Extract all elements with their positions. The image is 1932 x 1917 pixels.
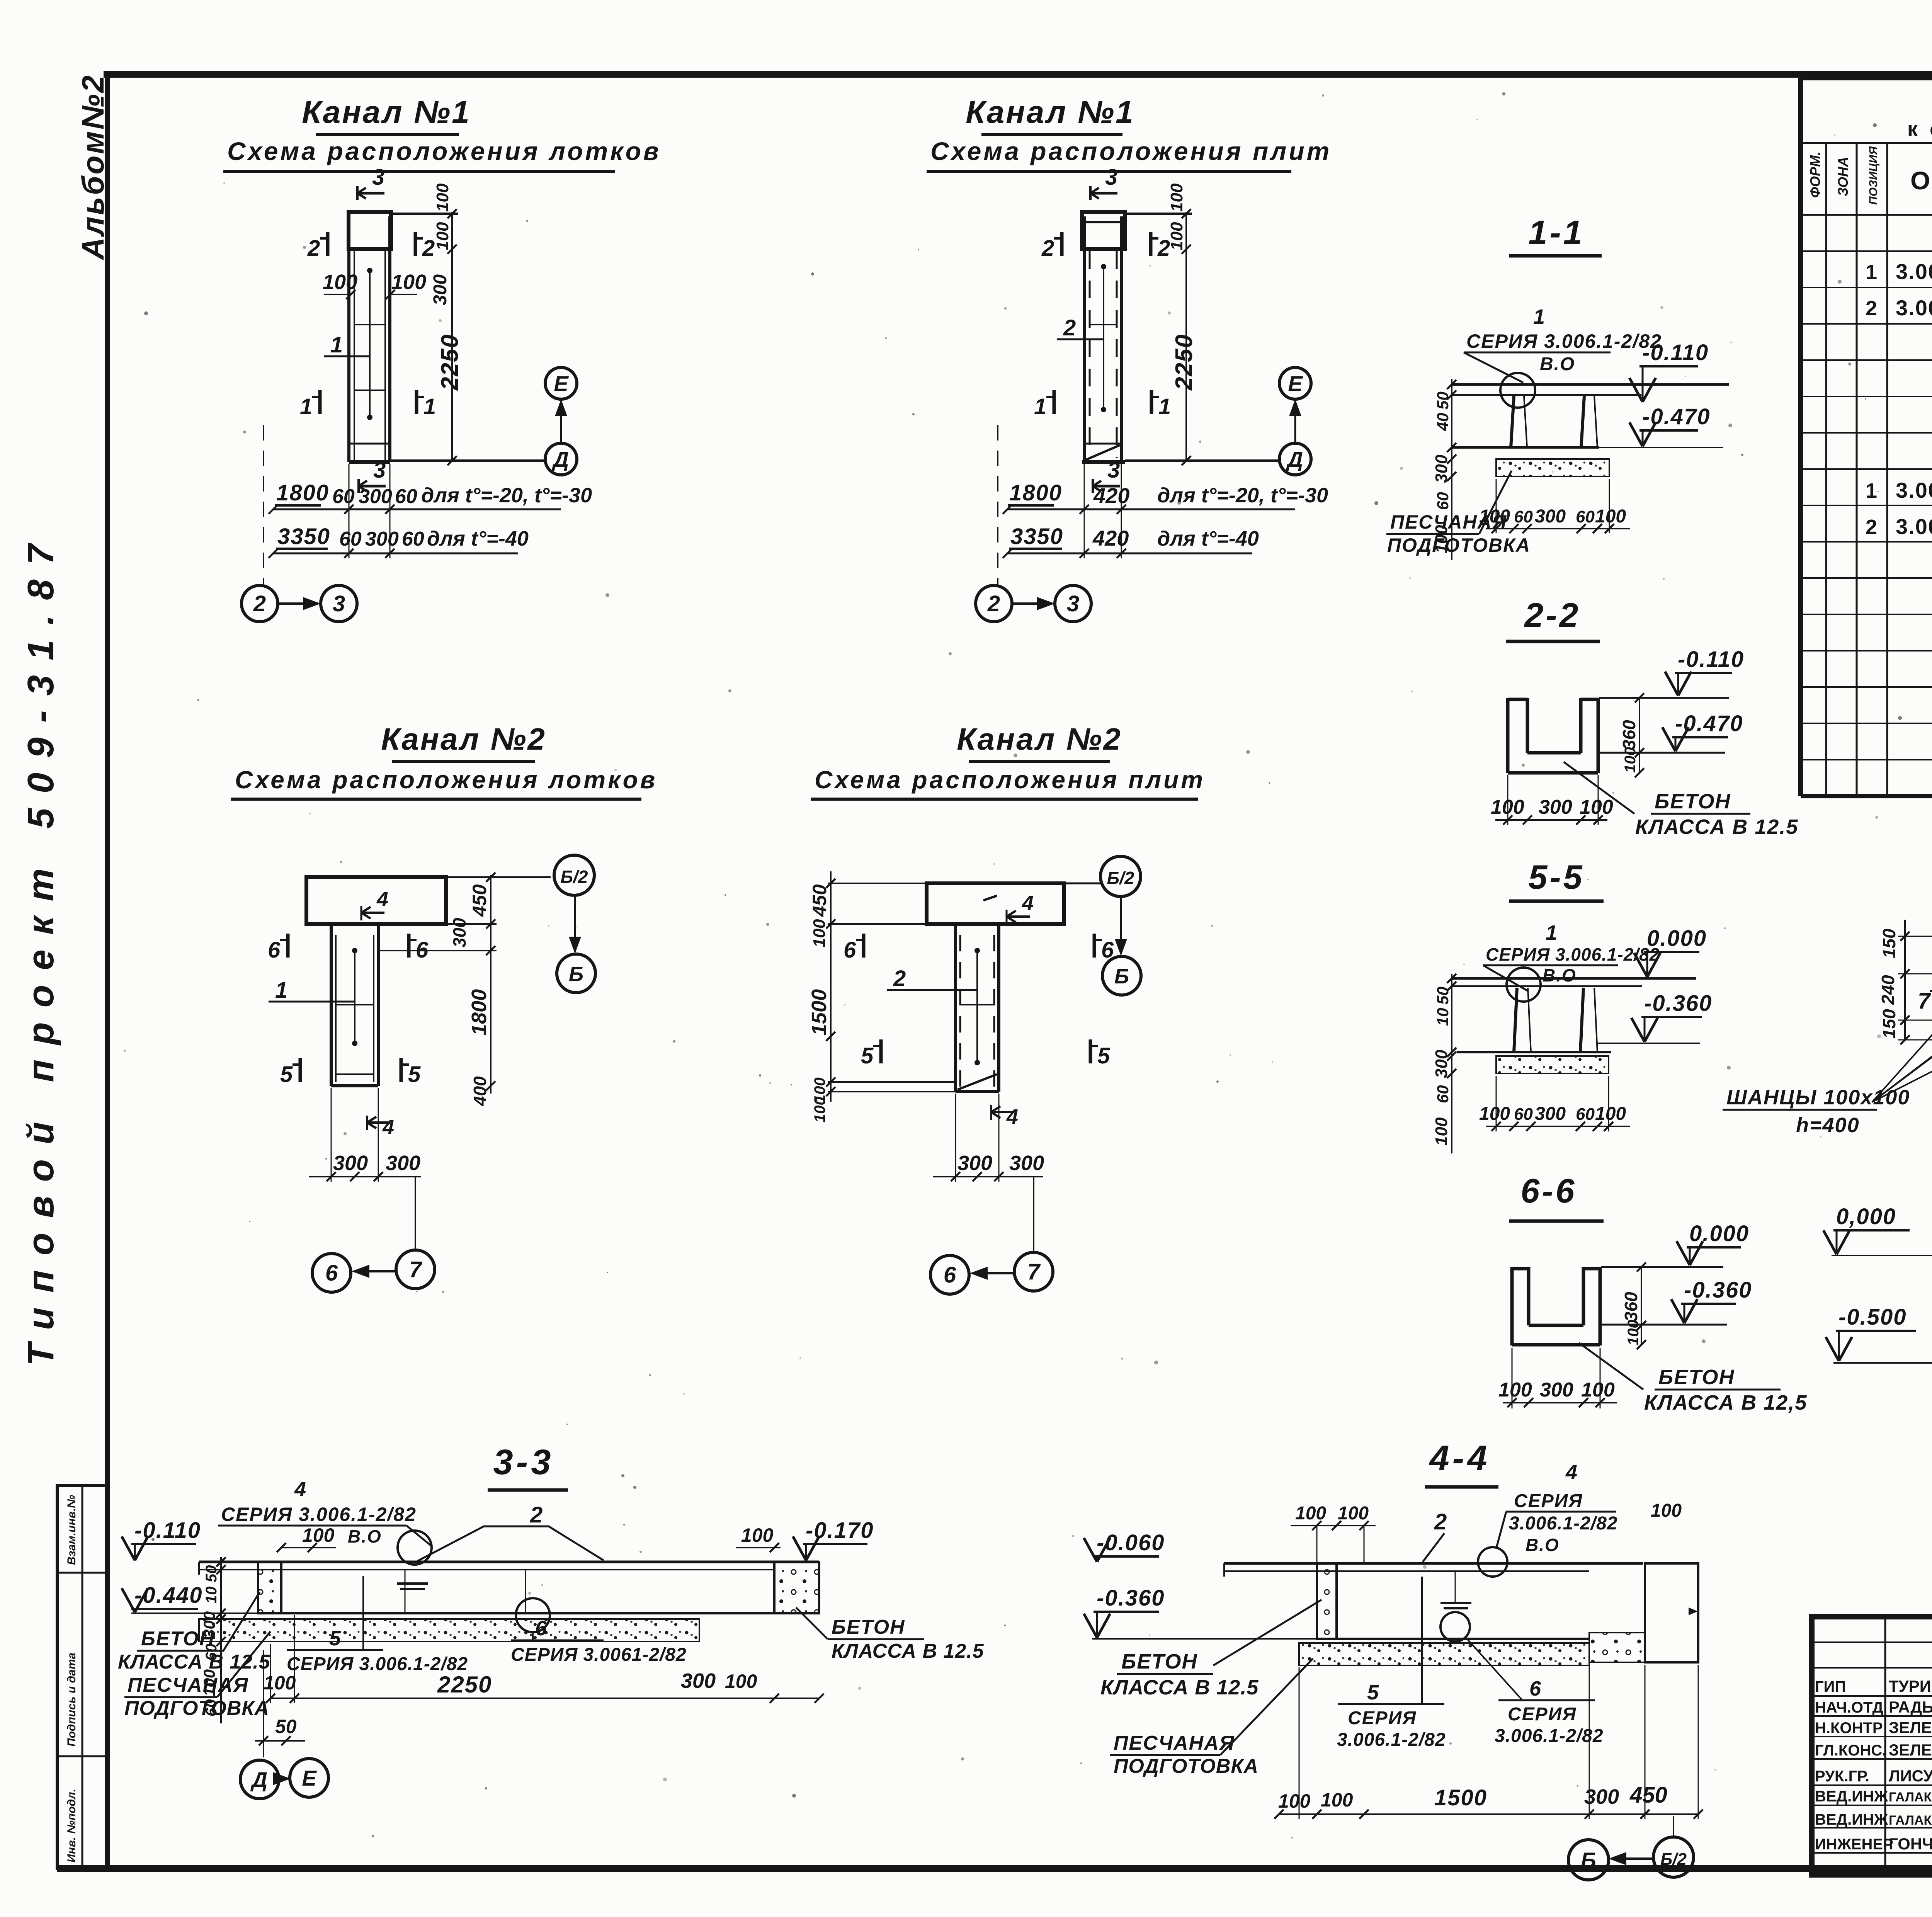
svg-text:100: 100 (200, 1669, 218, 1696)
svg-text:4: 4 (1565, 1461, 1577, 1484)
svg-text:100: 100 (1167, 183, 1186, 212)
svg-text:1-1: 1-1 (1528, 213, 1584, 252)
1-1 slab (1452, 383, 1729, 386)
svg-text:1: 1 (1866, 260, 1877, 284)
svg-text:1: 1 (1034, 394, 1046, 419)
svg-text:100: 100 (1432, 1117, 1451, 1146)
3-3 right wall hatched (774, 1562, 819, 1613)
svg-text:1: 1 (1546, 921, 1557, 944)
svg-text:6: 6 (325, 1260, 338, 1286)
svg-text:3.006.1-2/82 вып 1-2: 3.006.1-2/82 вып 1-2 (1896, 514, 1932, 539)
FO-8 leaders to anchors (1872, 968, 1932, 1102)
svg-text:300: 300 (1535, 506, 1566, 527)
svg-text:КЛАССА В 12.5: КЛАССА В 12.5 (1635, 815, 1798, 839)
svg-text:1: 1 (423, 394, 436, 419)
svg-text:6: 6 (535, 1617, 547, 1640)
svg-text:Типовой проект 509-31.87: Типовой проект 509-31.87 (20, 529, 61, 1366)
svg-text:СЕРИЯ: СЕРИЯ (1508, 1704, 1577, 1725)
svg-text:100: 100 (811, 1097, 828, 1123)
svg-text:50: 50 (275, 1716, 297, 1737)
svg-text:ГЛ.КОНС.: ГЛ.КОНС. (1815, 1742, 1886, 1759)
svg-text:КЛАССА В 12,5: КЛАССА В 12,5 (1644, 1391, 1807, 1414)
svg-text:1800: 1800 (276, 480, 329, 505)
svg-text:60: 60 (395, 485, 417, 508)
svg-text:ЗЕЛЕНСКИЙ: ЗЕЛЕНСКИЙ (1889, 1740, 1932, 1759)
svg-text:60: 60 (332, 485, 355, 508)
svg-text:5: 5 (1097, 1043, 1110, 1068)
svg-text:3: 3 (333, 591, 345, 616)
svg-text:100: 100 (433, 183, 452, 212)
svg-text:2: 2 (1041, 236, 1054, 261)
svg-text:1500: 1500 (1434, 1785, 1487, 1810)
svg-text:300: 300 (386, 1152, 420, 1175)
svg-text:-0.360: -0.360 (1684, 1277, 1752, 1303)
4-4 left wall hatched (1317, 1563, 1337, 1639)
svg-text:ПОДГОТОВКА: ПОДГОТОВКА (1387, 534, 1531, 556)
svg-text:ГАЛАКТИОНОВА: ГАЛАКТИОНОВА (1889, 1790, 1932, 1805)
svg-text:3.006.1-2/82: 3.006.1-2/82 (1337, 1730, 1446, 1750)
svg-text:1500: 1500 (808, 989, 831, 1036)
svg-text:1: 1 (1158, 394, 1171, 419)
svg-text:7: 7 (1027, 1259, 1041, 1284)
svg-text:300: 300 (359, 485, 392, 508)
4-4 bottom line (1317, 1638, 1589, 1640)
svg-text:450: 450 (1629, 1783, 1667, 1808)
svg-text:Обозначение: Обозначение (1910, 166, 1932, 195)
svg-text:РАДЬКО: РАДЬКО (1889, 1698, 1932, 1716)
svg-text:2: 2 (1063, 315, 1076, 340)
5-5 walls (1514, 988, 1517, 1052)
svg-text:2: 2 (253, 591, 266, 616)
svg-text:100: 100 (1651, 1500, 1682, 1521)
svg-text:100: 100 (1167, 222, 1186, 250)
svg-text:для t°=-20, t°=-30: для t°=-20, t°=-30 (1157, 484, 1328, 507)
5-5 sand (1496, 1056, 1609, 1073)
svg-text:100: 100 (1338, 1503, 1369, 1524)
svg-text:2: 2 (893, 966, 906, 991)
grid circle Б (lotki) (557, 954, 595, 993)
svg-text:Б: Б (1581, 1848, 1596, 1872)
axis circle 7 (lotki) (396, 1250, 435, 1289)
svg-text:ИНЖЕНЕР: ИНЖЕНЕР (1815, 1836, 1893, 1853)
svg-text:В.О: В.О (1540, 354, 1575, 374)
3-3 sand layer (199, 1619, 699, 1641)
svg-text:ПЕСЧАНАЯ: ПЕСЧАНАЯ (128, 1674, 249, 1696)
svg-text:ЗЕЛЕНСКИЙ: ЗЕЛЕНСКИЙ (1889, 1718, 1932, 1737)
svg-text:Канал №1: Канал №1 (302, 95, 471, 130)
svg-text:420: 420 (1093, 483, 1129, 508)
svg-text:100: 100 (810, 919, 829, 947)
svg-text:5: 5 (1367, 1681, 1379, 1704)
svg-text:1800: 1800 (1009, 480, 1062, 505)
axis dashed line (263, 425, 264, 584)
svg-text:ВЕД.ИНЖ: ВЕД.ИНЖ (1815, 1788, 1888, 1805)
1-1 sand layer (1496, 459, 1609, 476)
svg-text:Д: Д (552, 447, 569, 471)
svg-text:1: 1 (1866, 479, 1877, 502)
svg-text:100: 100 (1321, 1789, 1353, 1811)
6-6 channel (1510, 1267, 1514, 1345)
svg-text:Схема расположения лотков: Схема расположения лотков (235, 766, 657, 794)
axis circle 3 plity (1055, 585, 1091, 622)
svg-text:3: 3 (372, 165, 384, 190)
svg-text:300: 300 (1540, 1379, 1573, 1401)
svg-text:БЕТОН: БЕТОН (832, 1616, 905, 1638)
svg-text:3: 3 (1067, 591, 1079, 616)
svg-text:Схема расположения плит: Схема расположения плит (815, 766, 1205, 794)
svg-text:300: 300 (333, 1152, 368, 1175)
svg-text:100: 100 (433, 222, 452, 250)
svg-text:Схема расположения лотков: Схема расположения лотков (227, 137, 661, 165)
svg-text:300: 300 (1432, 1050, 1451, 1078)
svg-text:для t°=-20, t°=-30: для t°=-20, t°=-30 (421, 484, 592, 507)
svg-text:Б: Б (1114, 965, 1129, 988)
svg-text:100: 100 (1498, 1379, 1532, 1401)
kanal1 plity ext + dims (1125, 213, 1192, 215)
svg-text:-0.360: -0.360 (1644, 991, 1712, 1016)
axis circle 2 (241, 585, 278, 622)
svg-text:6: 6 (1529, 1677, 1541, 1700)
svg-text:-0.470: -0.470 (1642, 404, 1710, 429)
svg-text:400: 400 (470, 1076, 490, 1106)
svg-text:1: 1 (330, 332, 343, 357)
frame top border (104, 71, 1932, 78)
svg-text:ПЕСЧАНАЯ: ПЕСЧАНАЯ (1114, 1732, 1235, 1754)
kanal2 lotki marks 6 (286, 934, 290, 958)
2-2 vertical dim (1639, 698, 1640, 774)
title block left grid (1884, 1617, 1886, 1875)
svg-text:3.006.1-2/82 вып 1-1: 3.006.1-2/82 вып 1-1 (1896, 478, 1932, 502)
svg-text:360: 360 (1619, 720, 1639, 750)
grid circle Б/2 (plity) (1100, 856, 1141, 896)
kanal2 lotki axis line (415, 1177, 416, 1249)
grid circle Б (plity) (1102, 956, 1141, 995)
kanal2 lotki marks 5 (299, 1058, 302, 1082)
svg-text:2: 2 (1157, 236, 1170, 261)
4-4 right concrete (1589, 1633, 1645, 1662)
axis circle Д (240, 1760, 279, 1799)
3-3 inner joints (405, 1570, 406, 1613)
svg-text:0.000: 0.000 (1647, 926, 1707, 951)
svg-text:2: 2 (1866, 297, 1877, 320)
svg-text:для t°=-40: для t°=-40 (427, 527, 529, 550)
svg-text:Б/2: Б/2 (1660, 1850, 1687, 1869)
svg-text:5-5: 5-5 (1528, 858, 1584, 896)
1-1 callout circle (1500, 373, 1535, 408)
spec table grid (1801, 76, 1932, 80)
svg-text:ПОЗИЦИЯ: ПОЗИЦИЯ (1867, 146, 1880, 205)
axis circle 2 plity (976, 585, 1012, 622)
kanal2 plity top slab (927, 883, 1064, 924)
svg-text:60: 60 (402, 528, 424, 550)
svg-text:Е: Е (302, 1766, 317, 1790)
6-6 vertical dim (1641, 1267, 1642, 1345)
svg-text:360: 360 (1621, 1292, 1641, 1322)
svg-text:100: 100 (1479, 1104, 1510, 1124)
kanal2 plity axis line (1033, 1177, 1034, 1251)
svg-text:В.О: В.О (348, 1526, 382, 1546)
kanal1 plity plan column (1082, 212, 1125, 249)
section marks 2 plity (1060, 232, 1064, 256)
kanal2 lotki right dims (490, 875, 492, 1094)
grid circle Е (545, 367, 577, 399)
grid circle Д (545, 443, 577, 475)
svg-text:2250: 2250 (437, 1672, 492, 1698)
kanal2 plity left dims (830, 871, 832, 1102)
5-5 slab (1452, 977, 1696, 980)
svg-text:5: 5 (861, 1043, 874, 1068)
kanal2 lotki column (330, 924, 333, 1086)
svg-text:ГОНЧАРУК: ГОНЧАРУК (1889, 1835, 1932, 1853)
4-4 foundation block (1645, 1563, 1698, 1662)
axis circle Б/2 (1653, 1837, 1694, 1877)
section marks 2 (326, 232, 330, 256)
svg-text:450: 450 (469, 884, 490, 917)
svg-text:ФОРМ.: ФОРМ. (1807, 151, 1823, 198)
svg-text:60: 60 (339, 528, 362, 550)
svg-text:-0.500: -0.500 (1838, 1305, 1906, 1330)
svg-text:4: 4 (1006, 1105, 1018, 1128)
svg-text:4: 4 (294, 1478, 306, 1501)
grid circle Е plity (1279, 367, 1311, 399)
section marks 1 (318, 390, 322, 414)
axis dashed line plity (997, 425, 998, 584)
svg-text:4: 4 (382, 1116, 394, 1139)
4-4 slab (1224, 1562, 1643, 1565)
svg-text:4: 4 (1022, 891, 1034, 915)
svg-text:1: 1 (275, 978, 287, 1003)
svg-text:40: 40 (1434, 413, 1452, 431)
axis circle 3 (321, 585, 357, 622)
svg-text:3: 3 (1105, 165, 1117, 190)
grid circle Д plity (1279, 443, 1311, 475)
svg-text:3-3: 3-3 (493, 1442, 554, 1482)
svg-text:7: 7 (409, 1257, 423, 1282)
svg-text:100: 100 (1595, 506, 1626, 527)
svg-text:-0.110: -0.110 (1642, 340, 1709, 365)
4-4 sand layer (1299, 1643, 1589, 1665)
svg-text:5: 5 (280, 1062, 293, 1087)
svg-text:ГАЛАКТИОНОВА: ГАЛАКТИОНОВА (1889, 1813, 1932, 1828)
svg-text:100: 100 (1295, 1503, 1326, 1524)
svg-text:В.О: В.О (1543, 965, 1577, 985)
svg-text:100: 100 (1595, 1104, 1626, 1124)
2-2 channel (1506, 698, 1510, 773)
svg-text:60: 60 (1576, 1105, 1595, 1124)
svg-text:6-6: 6-6 (1520, 1172, 1577, 1210)
svg-text:СЕРИЯ 3.006.1-2/82: СЕРИЯ 3.006.1-2/82 (1466, 330, 1662, 352)
svg-text:2250: 2250 (437, 334, 463, 391)
grid circle Б/2 (lotki) (554, 855, 594, 895)
svg-text:3350: 3350 (1010, 524, 1063, 549)
kanal2 plity marks 6 (862, 934, 866, 958)
axis arrow 2-3 (278, 602, 310, 605)
kanal2 plity column (954, 924, 957, 1092)
svg-text:100: 100 (741, 1524, 774, 1546)
svg-text:Канал №2: Канал №2 (381, 722, 546, 756)
svg-text:100: 100 (1479, 506, 1510, 527)
svg-text:Е: Е (1288, 371, 1303, 396)
svg-text:150: 150 (1879, 1009, 1899, 1039)
svg-text:6: 6 (268, 937, 281, 963)
svg-text:300: 300 (1009, 1152, 1044, 1175)
svg-text:Канал №1: Канал №1 (966, 95, 1135, 130)
kanal2 lotki top slab (306, 877, 446, 924)
svg-text:100: 100 (1622, 747, 1639, 773)
svg-text:60: 60 (1434, 1085, 1452, 1103)
svg-text:2250: 2250 (1171, 334, 1197, 391)
kanal2 plity marks 5 (879, 1039, 883, 1063)
1-1 bottom (1452, 446, 1599, 449)
svg-text:ЗОНА: ЗОНА (1835, 157, 1851, 196)
axis circle 6 (lotki) (312, 1254, 351, 1292)
svg-text:3: 3 (1107, 458, 1120, 483)
svg-text:ЛИСУНОВ: ЛИСУНОВ (1889, 1767, 1932, 1785)
axis circle Е (290, 1759, 328, 1797)
svg-text:3.006.1-2/82: 3.006.1-2/82 (1495, 1726, 1604, 1746)
svg-text:2: 2 (307, 236, 320, 261)
svg-text:СЕРИЯ 3.0061-2/82: СЕРИЯ 3.0061-2/82 (511, 1645, 687, 1665)
svg-text:4-4: 4-4 (1429, 1439, 1490, 1478)
svg-text:3.006.1-2/82 вып 1-2: 3.006.1-2/82 вып 1-2 (1896, 296, 1932, 320)
svg-text:60: 60 (203, 1699, 220, 1717)
svg-text:300: 300 (200, 1611, 218, 1638)
5-5 bottom (1457, 1051, 1611, 1053)
svg-text:ШАНЦЫ 100х100: ШАНЦЫ 100х100 (1726, 1086, 1910, 1109)
svg-text:60: 60 (1514, 1105, 1533, 1124)
svg-text:100: 100 (1278, 1790, 1311, 1812)
4-4 callout circle 1 (1478, 1547, 1507, 1577)
frame left border (105, 74, 110, 1869)
1-1 walls (1511, 396, 1514, 447)
svg-text:ПОДГОТОВКА: ПОДГОТОВКА (124, 1697, 269, 1720)
svg-text:НАЧ.ОТД: НАЧ.ОТД (1815, 1699, 1883, 1716)
3-3 slab (199, 1561, 819, 1563)
left form strip (57, 1486, 108, 1869)
svg-text:ГИП: ГИП (1815, 1678, 1846, 1695)
svg-text:Б/2: Б/2 (561, 867, 588, 887)
svg-text:300: 300 (365, 528, 399, 550)
svg-text:5: 5 (408, 1062, 421, 1087)
svg-text:100: 100 (725, 1670, 757, 1692)
svg-text:300: 300 (449, 918, 469, 947)
svg-text:60: 60 (1576, 507, 1595, 526)
svg-text:300: 300 (1539, 796, 1572, 818)
3-3 callout circle 2 (516, 1598, 550, 1632)
svg-text:100: 100 (1432, 525, 1451, 553)
svg-text:БЕТОН: БЕТОН (1655, 790, 1731, 813)
svg-text:6: 6 (944, 1262, 956, 1288)
4-4 joint symbol (1440, 1603, 1471, 1608)
svg-text:Е: Е (554, 371, 569, 396)
svg-text:100: 100 (323, 270, 357, 294)
svg-text:РУК.ГР.: РУК.ГР. (1815, 1768, 1869, 1785)
svg-text:Н.КОНТР: Н.КОНТР (1815, 1720, 1883, 1737)
svg-text:300: 300 (957, 1152, 992, 1175)
svg-text:420: 420 (1092, 526, 1129, 550)
svg-text:1: 1 (300, 394, 312, 419)
svg-text:для t°=-40: для t°=-40 (1157, 527, 1259, 550)
3-3 bottom line (258, 1612, 819, 1614)
svg-text:3: 3 (373, 458, 386, 483)
svg-text:300: 300 (681, 1669, 716, 1692)
4-4 callout circle 2 (1440, 1612, 1470, 1641)
svg-text:2: 2 (1866, 515, 1877, 539)
svg-text:СЕРИЯ: СЕРИЯ (1514, 1491, 1583, 1511)
axis circle 6 (plity) (930, 1255, 969, 1294)
svg-text:100: 100 (264, 1672, 296, 1694)
svg-text:-0.360: -0.360 (1097, 1585, 1165, 1611)
title block outer (1812, 1617, 1932, 1875)
svg-text:В.О: В.О (1526, 1535, 1560, 1555)
svg-text:300: 300 (430, 274, 451, 305)
svg-text:6: 6 (844, 937, 856, 963)
svg-text:-0.110: -0.110 (134, 1518, 201, 1543)
svg-text:2: 2 (987, 591, 1000, 616)
svg-text:Подпись и дата: Подпись и дата (65, 1653, 78, 1747)
svg-text:3350: 3350 (277, 524, 330, 549)
svg-text:ПОДГОТОВКА: ПОДГОТОВКА (1114, 1755, 1259, 1778)
3-3 callout circle 1 (398, 1531, 432, 1565)
svg-text:100: 100 (302, 1524, 335, 1546)
kanal1 lotki plan column (349, 212, 391, 249)
svg-text:КЛАССА В 12.5: КЛАССА В 12.5 (118, 1651, 270, 1673)
svg-text:БЕТОН: БЕТОН (1121, 1650, 1198, 1673)
grid connector (560, 408, 562, 443)
svg-text:ВЕД.ИНЖ: ВЕД.ИНЖ (1815, 1811, 1888, 1828)
svg-text:СЕРИЯ: СЕРИЯ (1348, 1708, 1417, 1728)
svg-text:7: 7 (1918, 988, 1931, 1014)
svg-text:5: 5 (329, 1627, 341, 1650)
svg-text:10: 10 (203, 1587, 220, 1604)
svg-text:h=400: h=400 (1796, 1114, 1860, 1137)
svg-text:1800: 1800 (468, 989, 491, 1036)
svg-text:10: 10 (1434, 1008, 1452, 1026)
svg-text:Канал №2: Канал №2 (957, 722, 1122, 756)
svg-text:50: 50 (1434, 391, 1452, 410)
FO-8 left dims (1904, 920, 1906, 1040)
svg-text:0.000: 0.000 (1689, 1221, 1749, 1246)
svg-text:1: 1 (1533, 305, 1545, 328)
svg-text:3.006.1-2/82: 3.006.1-2/82 (1509, 1513, 1618, 1534)
svg-text:Д: Д (250, 1767, 267, 1792)
svg-text:2: 2 (1434, 1509, 1447, 1534)
svg-text:3.006.1-2/82 вып 1-1: 3.006.1-2/82 вып 1-1 (1896, 259, 1932, 284)
svg-text:Схема расположения плит: Схема расположения плит (930, 137, 1332, 165)
3-3 axis to Д (263, 1650, 264, 1757)
svg-text:240: 240 (1878, 975, 1898, 1005)
svg-text:100: 100 (1581, 1379, 1615, 1401)
svg-text:0,000: 0,000 (1836, 1204, 1896, 1229)
svg-text:к схемам расположения каналов: к схемам расположения каналов и фундамен… (1907, 117, 1932, 141)
axis circle Б (1568, 1840, 1609, 1880)
svg-text:БЕТОН: БЕТОН (1658, 1366, 1735, 1389)
kanal1 lotki right extension + dims (391, 213, 458, 215)
3-3 left wall hatched (258, 1562, 281, 1613)
svg-text:2: 2 (530, 1502, 543, 1527)
svg-text:-0.170: -0.170 (806, 1518, 874, 1543)
svg-text:Д: Д (1286, 447, 1303, 471)
svg-text:450: 450 (809, 884, 830, 917)
svg-text:-0.110: -0.110 (1678, 647, 1744, 672)
5-5 callout circle (1507, 968, 1541, 1002)
svg-text:4: 4 (376, 888, 388, 911)
svg-text:Взам.инв.№: Взам.инв.№ (65, 1495, 78, 1565)
svg-text:Альбом№2: Альбом№2 (76, 74, 110, 260)
svg-text:2: 2 (422, 236, 435, 261)
svg-text:60: 60 (1514, 507, 1533, 526)
svg-text:300: 300 (1535, 1104, 1566, 1124)
